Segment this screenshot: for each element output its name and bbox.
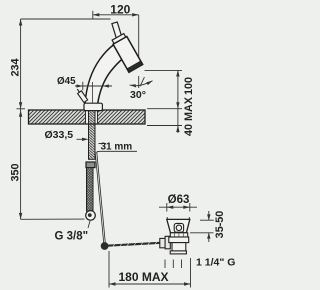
svg-text:G 3/8": G 3/8": [55, 231, 89, 243]
svg-text:180 MAX: 180 MAX: [118, 270, 168, 284]
svg-text:Ø33,5: Ø33,5: [45, 129, 74, 141]
svg-text:35-50: 35-50: [214, 211, 226, 239]
svg-text:1 1/4" G: 1 1/4" G: [196, 257, 235, 269]
svg-text:234: 234: [10, 58, 22, 76]
svg-text:40 MAX: 40 MAX: [183, 96, 195, 136]
svg-text:Ø45: Ø45: [57, 76, 76, 87]
svg-text:30°: 30°: [130, 89, 146, 101]
svg-text:Ø63: Ø63: [168, 194, 190, 206]
svg-text:100: 100: [183, 77, 195, 95]
svg-text:350: 350: [10, 163, 22, 181]
